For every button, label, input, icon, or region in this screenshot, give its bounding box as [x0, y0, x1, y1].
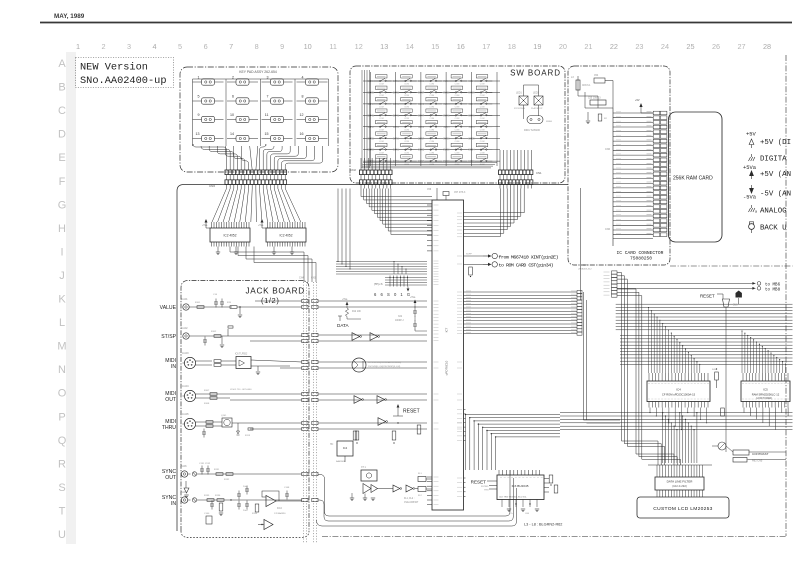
svg-text:SNo.AA02400-up: SNo.AA02400-up — [80, 75, 167, 87]
svg-text:COM: COM — [404, 129, 409, 131]
svg-text:COM: COM — [455, 84, 460, 86]
svg-text:5: 5 — [178, 42, 182, 51]
svg-text:COM: COM — [455, 152, 460, 154]
svg-text:C54: C54 — [594, 75, 599, 77]
svg-text:COM: COM — [404, 152, 409, 154]
svg-text:SW30: SW30 — [368, 81, 375, 83]
svg-text:IC4: IC4 — [343, 446, 348, 450]
svg-text:R102: R102 — [211, 331, 217, 333]
svg-text:to MB8: to MB8 — [765, 288, 781, 292]
svg-text:C: C — [58, 105, 66, 117]
svg-text:+5Va: +5Va — [202, 225, 208, 227]
svg-text:SW54: SW54 — [468, 127, 475, 129]
svg-text:COM: COM — [455, 141, 460, 143]
svg-text:25: 25 — [686, 42, 694, 51]
svg-text:SW69: SW69 — [468, 161, 475, 163]
svg-text:5: 5 — [198, 95, 200, 99]
svg-text:27: 27 — [737, 42, 745, 51]
svg-text:SW35: SW35 — [368, 92, 375, 94]
svg-text:D601 TL05106: D601 TL05106 — [524, 129, 540, 132]
svg-text:X22: X22 — [398, 316, 403, 318]
svg-text:COM: COM — [429, 95, 434, 97]
svg-text:L3 - L8 : BLGRN2-R62: L3 - L8 : BLGRN2-R62 — [524, 523, 562, 527]
svg-text:IC2 4052: IC2 4052 — [280, 234, 293, 238]
svg-text:to MB6: to MB6 — [765, 283, 781, 287]
svg-text:LED1: LED1 — [516, 93, 522, 95]
svg-text:COM: COM — [379, 84, 384, 86]
svg-text:F: F — [59, 176, 66, 188]
svg-text:21: 21 — [584, 42, 592, 51]
svg-text:SW48: SW48 — [443, 115, 450, 117]
svg-text:CN2: CN2 — [350, 168, 356, 172]
svg-text:COM: COM — [480, 95, 485, 97]
svg-text:JA106: JA106 — [180, 465, 187, 468]
svg-text:D: D — [58, 129, 66, 141]
svg-text:COM: COM — [455, 164, 460, 166]
svg-text:SW40: SW40 — [368, 104, 375, 106]
svg-text:SW66: SW66 — [393, 161, 400, 163]
svg-text:JA101: JA101 — [181, 298, 188, 301]
svg-text:SW68: SW68 — [443, 161, 450, 163]
svg-text:24: 24 — [661, 42, 669, 51]
svg-text:+5Va: +5Va — [342, 299, 348, 301]
svg-text:(102-0-292): (102-0-292) — [672, 484, 687, 488]
svg-text:20: 20 — [559, 42, 567, 51]
svg-text:SW52: SW52 — [418, 127, 425, 129]
svg-text:SW41: SW41 — [393, 104, 400, 106]
svg-text:ST/SP: ST/SP — [161, 334, 176, 340]
svg-text:SW63: SW63 — [443, 150, 450, 152]
svg-text:COM: COM — [480, 118, 485, 120]
svg-text:CN6 6.1: CN6 6.1 — [582, 85, 591, 87]
svg-text:13: 13 — [196, 132, 200, 136]
svg-text:COM: COM — [480, 164, 485, 166]
svg-text:26: 26 — [712, 42, 720, 51]
svg-text:T: T — [59, 505, 66, 517]
svg-text:CLK TRG TRG SCL SCL SCL: CLK TRG TRG SCL SCL SCL — [499, 497, 527, 499]
svg-text:COM: COM — [404, 141, 409, 143]
svg-text:C57 47/6.3: C57 47/6.3 — [454, 192, 466, 194]
svg-text:C56: C56 — [427, 189, 432, 191]
svg-text:CF ROM uPD23C1000A-15: CF ROM uPD23C1000A-15 — [662, 392, 696, 396]
svg-text:KEY PAD ASSY 262-654: KEY PAD ASSY 262-654 — [239, 70, 277, 74]
svg-text:IC7: IC7 — [445, 327, 449, 332]
svg-text:R154: R154 — [252, 513, 258, 515]
svg-text:15: 15 — [265, 132, 269, 136]
svg-text:SW56: SW56 — [393, 138, 400, 140]
svg-text:R136: R136 — [215, 495, 221, 497]
svg-text:1/2 BA6990: 1/2 BA6990 — [274, 512, 286, 515]
svg-text:SW49: SW49 — [468, 115, 475, 117]
svg-text:SW62: SW62 — [418, 150, 425, 152]
svg-text:SW45: SW45 — [368, 115, 375, 117]
svg-text:SW43: SW43 — [443, 104, 450, 106]
svg-text:from M667410 XINT(pin2E): from M667410 XINT(pin2E) — [499, 254, 559, 260]
svg-text:COM: COM — [429, 118, 434, 120]
svg-text:H: H — [58, 223, 66, 235]
svg-text:SW31: SW31 — [393, 81, 400, 83]
svg-text:IC9 2SC945(2SC945A/2SC945M): IC9 2SC945(2SC945A/2SC945M) — [368, 361, 401, 364]
svg-text:17: 17 — [482, 42, 490, 51]
svg-text:24x2: 24x2 — [243, 510, 249, 512]
svg-text:I: I — [60, 246, 63, 258]
svg-text:L: L — [59, 317, 65, 329]
svg-text:IC6 TLP552: IC6 TLP552 — [235, 354, 248, 356]
svg-text:COM: COM — [429, 152, 434, 154]
svg-text:(TP) x 6: (TP) x 6 — [374, 283, 383, 286]
svg-text:JACK BOARD: JACK BOARD — [246, 287, 305, 296]
svg-text:R107: R107 — [204, 390, 210, 392]
svg-text:+5Va: +5Va — [410, 297, 416, 299]
svg-text:MAY, 1989: MAY, 1989 — [54, 13, 85, 20]
svg-text:IN: IN — [171, 364, 176, 370]
svg-text:uPD78C10: uPD78C10 — [445, 360, 449, 375]
svg-text:6: 6 — [204, 42, 208, 51]
svg-text:15: 15 — [431, 42, 439, 51]
svg-text:JA104: JA104 — [182, 385, 189, 388]
svg-text:-5Va: -5Va — [743, 195, 757, 201]
svg-text:DATA: DATA — [337, 323, 350, 328]
svg-text:SW42: SW42 — [418, 104, 425, 106]
svg-text:SW50: SW50 — [368, 127, 375, 129]
svg-text:L1501.710 : 087-0460: L1501.710 : 087-0460 — [230, 389, 252, 391]
svg-text:256K RAM CARD: 256K RAM CARD — [673, 176, 713, 182]
svg-text:SW36: SW36 — [393, 92, 400, 94]
svg-text:NEW Version: NEW Version — [80, 62, 148, 74]
svg-text:SW BOARD: SW BOARD — [510, 69, 561, 78]
svg-text:SW47: SW47 — [418, 115, 425, 117]
svg-text:SW37: SW37 — [418, 92, 425, 94]
svg-text:JA103: JA103 — [182, 352, 189, 355]
svg-text:2: 2 — [101, 42, 105, 51]
svg-text:Q101: Q101 — [221, 415, 227, 417]
svg-text:28: 28 — [763, 42, 771, 51]
svg-text:IC4: IC4 — [676, 387, 681, 391]
svg-text:COM: COM — [480, 141, 485, 143]
svg-text:THRU: THRU — [162, 425, 176, 431]
svg-text:COM: COM — [379, 141, 384, 143]
svg-text:3STRG: 3STRG — [481, 486, 489, 488]
svg-text:COM: COM — [480, 84, 485, 86]
svg-text:BU1: BU1 — [733, 305, 738, 307]
svg-text:RESET: RESET — [471, 480, 487, 485]
svg-text:9: 9 — [198, 113, 200, 117]
svg-text:11: 11 — [265, 113, 269, 117]
svg-text:22: 22 — [610, 42, 618, 51]
svg-text:O: O — [58, 388, 67, 400]
svg-text:IC2 4052: IC2 4052 — [224, 234, 237, 238]
svg-text:R113: R113 — [245, 435, 251, 437]
svg-text:CONTRAST: CONTRAST — [752, 452, 769, 456]
svg-text:DATA LINE FILTER: DATA LINE FILTER — [667, 480, 694, 484]
svg-text:COM: COM — [429, 141, 434, 143]
svg-text:COM: COM — [429, 107, 434, 109]
svg-text:1: 1 — [76, 42, 80, 51]
svg-text:SW33: SW33 — [443, 81, 450, 83]
svg-text:13: 13 — [380, 42, 388, 51]
svg-text:CN4: CN4 — [299, 277, 304, 280]
svg-text:U: U — [58, 529, 66, 541]
svg-text:+5Va: +5Va — [258, 225, 264, 227]
svg-text:R: R — [58, 458, 66, 470]
svg-text:+5V (DI: +5V (DI — [760, 139, 791, 147]
svg-text:RESET: RESET — [700, 294, 715, 299]
svg-text:DIGITA: DIGITA — [760, 156, 787, 164]
svg-text:SW53: SW53 — [443, 127, 450, 129]
svg-text:3: 3 — [127, 42, 131, 51]
svg-text:SW39: SW39 — [468, 92, 475, 94]
svg-text:7: 7 — [267, 95, 269, 99]
svg-text:COM: COM — [404, 84, 409, 86]
svg-text:COM: COM — [480, 152, 485, 154]
svg-text:16: 16 — [300, 132, 304, 136]
svg-text:(LOW POWER): (LOW POWER) — [756, 398, 772, 400]
svg-text:14: 14 — [230, 132, 234, 136]
svg-text:18: 18 — [508, 42, 516, 51]
svg-text:CN6: CN6 — [605, 228, 611, 231]
svg-text:SW67: SW67 — [418, 161, 425, 163]
svg-text:P: P — [58, 411, 65, 423]
svg-text:IN: IN — [171, 501, 176, 507]
svg-text:SW57: SW57 — [418, 138, 425, 140]
svg-text:COM: COM — [404, 107, 409, 109]
svg-text:1000P-J: 1000P-J — [395, 320, 404, 322]
svg-text:8: 8 — [255, 42, 259, 51]
svg-text:JA105: JA105 — [182, 413, 189, 416]
svg-text:a: a — [755, 210, 757, 214]
svg-text:24x1: 24x1 — [243, 486, 249, 488]
svg-text:RESET: RESET — [403, 409, 420, 415]
svg-text:OUT: OUT — [165, 397, 176, 403]
svg-text:OUT: OUT — [165, 475, 176, 481]
svg-text:2SC945(K,L,M)/2SC945P(K,L,M): 2SC945(K,L,M)/2SC945P(K,L,M) — [368, 366, 400, 368]
svg-text:C55 100/6.3: C55 100/6.3 — [588, 98, 601, 100]
svg-text:COM: COM — [480, 129, 485, 131]
svg-text:9: 9 — [280, 42, 284, 51]
svg-text:BACK U: BACK U — [760, 225, 787, 233]
svg-text:COM: COM — [379, 129, 384, 131]
svg-text:IC10: IC10 — [277, 508, 283, 510]
svg-text:SW55: SW55 — [368, 138, 375, 140]
svg-text:7: 7 — [229, 42, 233, 51]
svg-text:4: 4 — [153, 42, 157, 51]
svg-text:JA107: JA107 — [180, 491, 187, 494]
svg-text:CN1: CN1 — [536, 171, 542, 175]
svg-text:RAM SRM20256LC-12: RAM SRM20256LC-12 — [752, 392, 780, 396]
svg-text:N: N — [58, 364, 66, 376]
svg-text:+5V: +5V — [746, 132, 756, 138]
svg-text:12: 12 — [355, 42, 363, 51]
svg-text:IC3 BU2045: IC3 BU2045 — [512, 484, 529, 488]
svg-text:JA102: JA102 — [181, 327, 188, 330]
svg-text:TRG: TRG — [484, 490, 489, 492]
svg-text:SW61: SW61 — [393, 150, 400, 152]
svg-text:COM: COM — [379, 152, 384, 154]
svg-text:CN6: CN6 — [605, 148, 611, 151]
svg-text:K: K — [58, 294, 66, 306]
svg-text:J: J — [59, 270, 65, 282]
svg-text:R131: R131 — [214, 469, 220, 471]
svg-text:SW60: SW60 — [546, 121, 553, 123]
svg-text:SW44: SW44 — [468, 104, 475, 106]
svg-text:10: 10 — [304, 42, 312, 51]
svg-text:COM: COM — [455, 118, 460, 120]
svg-text:XT 1: XT 1 — [361, 467, 367, 469]
svg-text:SW58: SW58 — [443, 138, 450, 140]
svg-text:COM: COM — [455, 129, 460, 131]
svg-text:B: B — [58, 82, 65, 94]
svg-text:IC CARD CONNECTOR: IC CARD CONNECTOR — [617, 250, 664, 256]
svg-text:SW34: SW34 — [468, 81, 475, 83]
svg-text:C131 C132: C131 C132 — [199, 463, 211, 465]
svg-text:VALUE: VALUE — [160, 305, 177, 311]
svg-text:11: 11 — [329, 42, 337, 51]
svg-text:CN5: CN5 — [583, 264, 588, 267]
svg-text:8: 8 — [302, 95, 304, 99]
svg-text:FL1, FL2 :: FL1, FL2 : — [404, 498, 415, 500]
svg-text:COM: COM — [429, 164, 434, 166]
svg-text:COM: COM — [429, 84, 434, 86]
svg-text:19: 19 — [533, 42, 541, 51]
svg-text:S: S — [58, 482, 65, 494]
svg-text:R132: R132 — [224, 479, 230, 481]
svg-text:COM: COM — [404, 95, 409, 97]
svg-text:6: 6 — [232, 95, 234, 99]
svg-text:M: M — [57, 341, 66, 353]
svg-text:R12 10K: R12 10K — [352, 311, 361, 313]
svg-text:CN3: CN3 — [311, 277, 316, 280]
svg-text:COM: COM — [455, 95, 460, 97]
svg-text:ANALOG: ANALOG — [760, 208, 787, 216]
svg-text:+5V (AN: +5V (AN — [760, 171, 791, 179]
svg-text:SW51: SW51 — [393, 127, 400, 129]
svg-text:23: 23 — [635, 42, 643, 51]
svg-text:SW60: SW60 — [368, 150, 375, 152]
svg-text:R101: R101 — [195, 302, 201, 304]
svg-text:SOFF: SOFF — [466, 254, 472, 256]
svg-text:R135: R135 — [204, 495, 210, 497]
svg-text:SW38: SW38 — [443, 92, 450, 94]
svg-text:R108: R108 — [204, 403, 210, 405]
svg-text:Q: Q — [58, 435, 67, 447]
svg-text:SW59: SW59 — [468, 138, 475, 140]
svg-text:PLAY/STOP: PLAY/STOP — [531, 107, 543, 110]
svg-text:to ROM CARD CST(pin34): to ROM CARD CST(pin34) — [499, 263, 554, 269]
svg-text:COM: COM — [379, 118, 384, 120]
svg-text:COM: COM — [379, 107, 384, 109]
svg-text:COM: COM — [404, 118, 409, 120]
svg-text:16: 16 — [457, 42, 465, 51]
svg-text:CUSTOM LCD LM20253: CUSTOM LCD LM20253 — [653, 506, 712, 512]
svg-text:(1/2): (1/2) — [261, 296, 279, 305]
svg-text:uP68(5V)-512: uP68(5V)-512 — [578, 269, 592, 271]
svg-text:G: G — [58, 199, 67, 211]
svg-text:COM: COM — [429, 129, 434, 131]
svg-text:COM: COM — [480, 107, 485, 109]
svg-text:COM: COM — [404, 164, 409, 166]
svg-text:C140: C140 — [204, 513, 210, 515]
svg-text:6 6 S 0 1 G: 6 6 S 0 1 G — [374, 292, 412, 297]
svg-text:COM: COM — [455, 107, 460, 109]
svg-text:COM: COM — [379, 95, 384, 97]
svg-text:BA6990B: BA6990B — [336, 460, 346, 463]
svg-text:SW32: SW32 — [418, 81, 425, 83]
svg-text:75080250: 75080250 — [630, 256, 652, 262]
svg-text:C148: C148 — [284, 487, 290, 489]
svg-text:12: 12 — [300, 113, 304, 117]
svg-text:SW46: SW46 — [393, 115, 400, 117]
svg-text:+5V: +5V — [635, 99, 640, 102]
svg-text:R62 CN5: R62 CN5 — [752, 460, 763, 463]
svg-text:SW64: SW64 — [468, 150, 475, 152]
svg-text:CVE-CRP32T: CVE-CRP32T — [404, 502, 419, 504]
svg-text:14: 14 — [406, 42, 414, 51]
svg-text:HC: HC — [330, 444, 334, 446]
svg-text:IC5: IC5 — [763, 387, 768, 391]
svg-text:A: A — [58, 58, 66, 70]
svg-text:+5Va: +5Va — [743, 165, 757, 171]
svg-text:10: 10 — [230, 113, 234, 117]
svg-text:E: E — [58, 152, 65, 164]
svg-text:-5V (AN: -5V (AN — [760, 191, 791, 199]
